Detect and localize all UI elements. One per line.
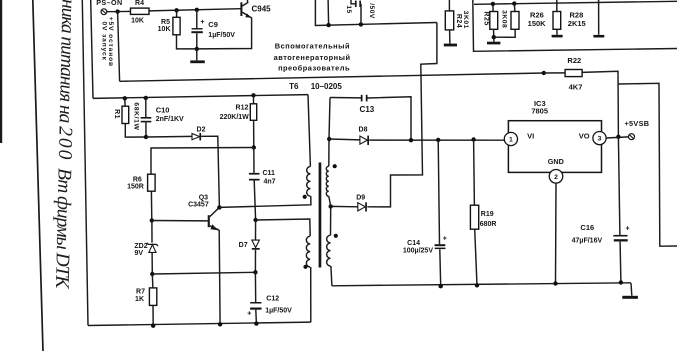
svg-text:C12: C12: [266, 295, 279, 302]
resistor R24: [445, 11, 469, 30]
diode D9: [356, 195, 367, 212]
wire secondary top to C13: [330, 97, 361, 99]
junction R12 top: [251, 93, 255, 97]
ground (R24): [444, 30, 457, 46]
wire node to R6: [151, 148, 254, 175]
transistor Q3 C3457: [188, 194, 219, 230]
resistor R7: [135, 288, 157, 306]
svg-text:220K/1W: 220K/1W: [220, 114, 250, 121]
wire ZD2 to R7 node: [151, 252, 153, 274]
junction C12 on bus: [254, 321, 258, 325]
junction C10 top: [144, 96, 148, 100]
wire C11 top stub: [253, 148, 255, 173]
resistor R22: [565, 56, 582, 91]
wire C14 line bottom: [439, 249, 442, 286]
svg-text:10K: 10K: [131, 18, 144, 25]
junction C14 on sec bus: [439, 284, 443, 288]
svg-text:+: +: [443, 236, 447, 243]
zener diode ZD2 9V: [134, 243, 158, 257]
wire secondary to D9: [331, 205, 358, 207]
transistor C945: [240, 0, 271, 18]
svg-text:4n7: 4n7: [264, 178, 276, 185]
wire 3K08 top stub: [513, 4, 516, 12]
svg-text:150R: 150R: [127, 184, 144, 191]
wire D7 node to T6 primary 2 top: [256, 219, 311, 236]
svg-text:1µF/50V: 1µF/50V: [208, 32, 235, 39]
wire secondary bottom: [331, 266, 332, 286]
svg-text:C14: C14: [407, 240, 420, 247]
svg-text:C16: C16: [580, 223, 594, 232]
svg-text:10–0205: 10–0205: [311, 82, 343, 91]
wire R22 right to +5VSB node: [582, 71, 618, 137]
transformer T6 secondary 2 phase dot: [334, 234, 338, 238]
junction C16 on sec bus: [619, 280, 623, 284]
wire GND pin2 down: [555, 183, 558, 283]
junction R5 top: [174, 8, 178, 12]
resistor R25: [482, 11, 497, 29]
junction top net a: [326, 23, 330, 27]
svg-text:2nF/1KV: 2nF/1KV: [156, 116, 184, 123]
wire secondary ground bus: [332, 283, 631, 286]
diode D2: [192, 127, 206, 141]
resistor R19: [470, 205, 496, 229]
wire Q3 emitter down: [218, 230, 221, 324]
svg-text:C10: C10: [156, 106, 170, 115]
wire C945 emitter down to ground node: [197, 17, 252, 49]
capacitor C11: [249, 170, 276, 186]
svg-text:2K15: 2K15: [568, 19, 586, 28]
junction R25 top: [491, 2, 495, 6]
svg-text:D9: D9: [356, 195, 365, 202]
wire C12 top stub: [254, 272, 256, 302]
wire R12 bottom: [253, 120, 255, 147]
svg-text:R25: R25: [482, 11, 489, 25]
wire control box outline: [473, 0, 677, 51]
svg-text:C13: C13: [360, 105, 375, 114]
diode D8: [359, 127, 369, 145]
output terminal +5VSB: [625, 119, 650, 140]
wire PS-ON terminal to R4: [107, 10, 131, 12]
wire C10 bottom stub: [145, 122, 147, 137]
svg-text:47µF/16V: 47µF/16V: [572, 238, 603, 245]
capacitor C10: [141, 106, 184, 123]
wire left edge vertical: [82, 0, 88, 326]
wire HV rail horizontal: [93, 95, 308, 99]
wire VO pin3 to +5VSB: [606, 137, 629, 138]
junction R7 on bus: [151, 324, 155, 328]
svg-text:R4: R4: [135, 0, 144, 7]
junction C14 top: [436, 138, 440, 142]
transformer T6 secondary 1 phase dot: [333, 164, 337, 168]
svg-text:0V запуск: 0V запуск: [101, 22, 108, 61]
svg-text:T6: T6: [289, 82, 299, 91]
svg-text:15: 15: [345, 5, 352, 13]
capacitor C16: [572, 223, 630, 245]
wire C13 to D8 cathode node: [368, 97, 412, 140]
wire C14 line top: [438, 140, 439, 244]
resistor R12: [220, 104, 257, 121]
svg-text:D8: D8: [359, 127, 368, 134]
transformer T6 secondary winding 2: [327, 235, 331, 266]
resistor R4: [131, 0, 150, 25]
junction Q3 collector node: [217, 205, 221, 209]
svg-text:/50V: /50V: [368, 3, 375, 19]
wire control box top rail: [474, 1, 677, 4]
junction C13/D8 out: [409, 138, 413, 142]
wire bottom bus: [88, 322, 311, 325]
svg-text:GND: GND: [548, 157, 564, 166]
capacitor C9: [191, 17, 235, 39]
svg-text:3K01: 3K01: [462, 11, 469, 29]
wire R26 top stub: [556, 0, 558, 12]
svg-text:100µ/25V: 100µ/25V: [403, 247, 433, 254]
junction C10 bottom node: [144, 135, 148, 139]
svg-text:68K/1W: 68K/1W: [133, 102, 140, 130]
transformer T6 primary winding 1: [307, 167, 311, 197]
svg-text:3: 3: [598, 136, 602, 143]
junction C9 top: [195, 8, 199, 12]
transformer T6 core: [319, 163, 322, 268]
svg-text:C11: C11: [263, 170, 276, 177]
junction R19 top: [471, 137, 475, 141]
junction pin2 on sec bus: [553, 281, 557, 285]
svg-text:Вспомогательный: Вспомогательный: [275, 41, 350, 50]
svg-text:+5VSB: +5VSB: [625, 119, 650, 128]
junction secondary top / D8: [327, 137, 331, 141]
capacitor C12: [247, 295, 292, 317]
wire secondary mid: [329, 196, 331, 235]
wire secondary top: [329, 98, 330, 167]
wire HV rail vertical: [91, 0, 93, 98]
junction +5VSB node: [616, 135, 620, 139]
svg-text:+: +: [200, 17, 205, 26]
wire C16 line bottom: [619, 242, 622, 283]
wire R19 lead top: [473, 140, 476, 206]
ground (C9): [190, 49, 205, 63]
wire R6 to base node: [150, 191, 152, 220]
transformer T6 secondary winding 1: [326, 166, 328, 196]
svg-text:D7: D7: [239, 242, 248, 249]
wire C16 line top: [618, 137, 620, 235]
junction R1 top: [123, 96, 127, 100]
svg-text:C9: C9: [208, 20, 218, 29]
svg-text:R6: R6: [133, 177, 142, 184]
wire R25 top stub: [492, 4, 494, 12]
svg-text:C3457: C3457: [188, 201, 209, 208]
IC IC3 7805 voltage regulator: [504, 99, 606, 183]
svg-text:PS–ON: PS–ON: [96, 0, 122, 7]
svg-text:9V: 9V: [134, 250, 143, 257]
svg-text:автогенераторный: автогенераторный: [274, 53, 351, 62]
wire rail down to T6 primary: [308, 95, 310, 167]
wire R24 top stub: [448, 0, 450, 11]
svg-text:150K: 150K: [528, 19, 547, 28]
svg-text:VO: VO: [579, 131, 590, 140]
wire secondary to D8: [329, 138, 360, 141]
transformer T6 primary 1 phase dot: [303, 195, 307, 199]
ground (R28): [593, 35, 604, 38]
junction PS-ON node: [115, 9, 119, 13]
wire PS-ON node down: [118, 12, 120, 82]
svg-text:4K7: 4K7: [569, 83, 583, 92]
junction R22 left: [542, 71, 546, 75]
label R28 2K15: [568, 11, 586, 29]
wire D7 top stub: [255, 220, 257, 240]
label +5V stop / 0V start (rotated): [101, 17, 115, 67]
wire bus up to T6 primary 2: [310, 267, 312, 322]
wire top net vertical 2: [327, 0, 330, 25]
resistor R6: [127, 174, 155, 191]
svg-text:R12: R12: [236, 105, 249, 112]
ground (R26): [552, 29, 563, 37]
svg-text:преобразователь: преобразователь: [278, 63, 350, 72]
svg-text:10K: 10K: [158, 26, 171, 33]
svg-text:1µF/50V: 1µF/50V: [265, 307, 292, 314]
svg-text:R7: R7: [136, 288, 145, 295]
diode D7: [239, 240, 260, 250]
junction R25/3K08 bottom: [492, 35, 496, 39]
wire C12 bottom to bus: [255, 310, 258, 324]
capacitor C13: [360, 95, 375, 114]
svg-text:1: 1: [509, 137, 513, 144]
wire D7 bottom stub: [254, 250, 256, 273]
wire D2 to Q3 collector node: [201, 136, 219, 207]
svg-text:R24: R24: [455, 14, 462, 28]
transformer T6 primary 2 phase dot: [303, 265, 307, 269]
svg-text:ZD2: ZD2: [134, 243, 147, 250]
junction D7 top node: [253, 218, 257, 222]
svg-text:+: +: [626, 225, 630, 232]
wire R5 bottom to ground node: [177, 35, 197, 49]
junction secondary mid / D9: [329, 204, 333, 208]
svg-text:C945: C945: [252, 4, 272, 13]
wire R1 top stub: [124, 98, 126, 106]
junction ZD2/R7/D7 row node: [150, 272, 154, 276]
capacitor C15: [345, 0, 375, 24]
input terminal PS-ON: [96, 0, 122, 15]
junction R19 on sec bus: [475, 283, 479, 287]
ground (R25): [487, 37, 500, 44]
junction 3K08 top: [512, 1, 516, 5]
resistor 3K08: [501, 10, 519, 29]
wire C9 bottom: [196, 33, 198, 49]
wire C11 bottom stub: [254, 181, 255, 221]
junction top net b: [359, 22, 363, 26]
svg-text:+: +: [247, 311, 251, 318]
wire D9 step to standby rail: [367, 23, 437, 207]
wire PS-ON rail to R22: [120, 73, 544, 81]
wire R19 lead bottom: [475, 229, 477, 285]
svg-text:D2: D2: [197, 127, 206, 134]
svg-text:R1: R1: [113, 109, 120, 119]
wire collector to T6 primary: [219, 196, 311, 207]
svg-text:Q3: Q3: [199, 194, 208, 201]
wire D8 to IC3 VI: [369, 139, 507, 141]
junction R12/C11/R6 node: [252, 145, 256, 149]
junction emitter/C9/R5 ground node: [195, 47, 199, 51]
label auxiliary self-oscillating converter: [274, 41, 351, 72]
svg-text:VI: VI: [527, 132, 534, 141]
svg-text:1K: 1K: [135, 296, 144, 303]
capacitor C14: [403, 236, 447, 255]
junction emitter on bus: [218, 322, 222, 326]
wire base node to ZD2: [151, 221, 153, 243]
wire R22 left lead: [544, 72, 565, 74]
wire R4 out to R5: [176, 10, 178, 17]
wire R25 bottom: [493, 29, 495, 37]
resistor R1: [113, 102, 140, 130]
wire 3K08 bottom to R25: [494, 29, 515, 37]
wire R22 net branch right: [618, 83, 677, 246]
svg-text:3K08: 3K08: [501, 10, 508, 28]
junction Q3 base node: [150, 218, 154, 222]
wire R28 lead: [598, 0, 600, 35]
junction D7/C12 node: [253, 270, 257, 274]
wire R7 bottom to bus: [152, 305, 154, 325]
ground (secondary bus): [622, 283, 638, 299]
svg-text:ника питания на 200 Вт фирмы D: ника питания на 200 Вт фирмы DTK: [51, 0, 79, 290]
label T6 10-0205: [289, 82, 342, 91]
svg-text:2: 2: [554, 174, 558, 181]
wire C9 top: [196, 10, 198, 29]
wire C10 top stub: [145, 98, 147, 117]
wire ZD2 node to D7 node: [152, 272, 255, 274]
svg-text:7805: 7805: [531, 107, 548, 116]
wire R12 top stub: [253, 95, 255, 104]
wire R7 top stub: [151, 274, 154, 288]
wire R4 to C945 base: [149, 9, 241, 11]
resistor R26: [528, 11, 561, 30]
svg-text:680R: 680R: [480, 221, 497, 228]
svg-text:R5: R5: [161, 19, 170, 26]
wire top net vertical 1: [315, 0, 437, 26]
wire R1 bottom to C10 bottom: [125, 124, 146, 138]
transformer T6 primary winding 2: [306, 236, 310, 267]
svg-text:R19: R19: [481, 211, 494, 218]
resistor R5: [158, 17, 180, 35]
wire base node to Q3: [152, 220, 208, 222]
wire C10 node to D2: [146, 135, 192, 138]
svg-text:R22: R22: [567, 56, 581, 65]
